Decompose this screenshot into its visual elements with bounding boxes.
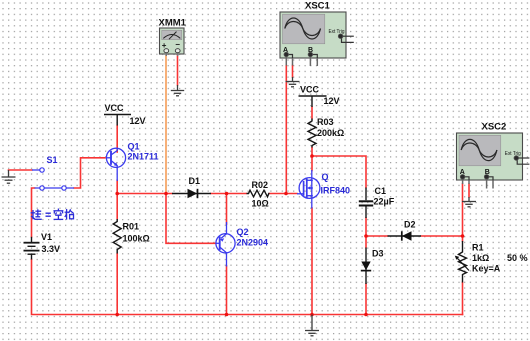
svg-text:D1: D1: [189, 176, 201, 186]
svg-text:D3: D3: [372, 249, 384, 259]
svg-text:IRF840: IRF840: [321, 185, 351, 195]
svg-text:XMM1: XMM1: [159, 18, 187, 29]
svg-text:Ext Trig: Ext Trig: [505, 151, 521, 157]
svg-text:C1: C1: [375, 186, 387, 196]
svg-text:Q2: Q2: [237, 227, 249, 237]
svg-text:3.3V: 3.3V: [42, 244, 61, 254]
svg-text:−: −: [175, 40, 180, 49]
svg-text:S1: S1: [47, 155, 58, 165]
svg-text:XSC2: XSC2: [482, 122, 507, 133]
svg-text:Key=A: Key=A: [472, 264, 501, 274]
svg-text:R03: R03: [317, 117, 334, 127]
svg-text:2N1711: 2N1711: [128, 151, 159, 161]
svg-text:2N2904: 2N2904: [237, 238, 269, 248]
svg-text:R01: R01: [123, 222, 140, 232]
svg-text:100kΩ: 100kΩ: [123, 234, 150, 244]
svg-text:12V: 12V: [324, 96, 340, 106]
svg-text:D2: D2: [404, 220, 416, 230]
svg-text:1kΩ: 1kΩ: [472, 253, 489, 263]
svg-text:VCC: VCC: [300, 84, 320, 94]
svg-text:VCC: VCC: [105, 103, 125, 113]
svg-text:R1: R1: [472, 243, 484, 253]
svg-text:R02: R02: [252, 180, 269, 190]
svg-text:12V: 12V: [130, 116, 146, 126]
svg-text:V1: V1: [41, 232, 52, 242]
svg-text:Q: Q: [322, 172, 329, 182]
svg-text:XSC1: XSC1: [305, 1, 331, 12]
svg-text:Q1: Q1: [128, 141, 140, 151]
svg-text:10Ω: 10Ω: [252, 199, 269, 209]
svg-text:200kΩ: 200kΩ: [317, 128, 344, 138]
svg-text:22µF: 22µF: [374, 197, 395, 207]
svg-text:50 %: 50 %: [507, 253, 528, 263]
